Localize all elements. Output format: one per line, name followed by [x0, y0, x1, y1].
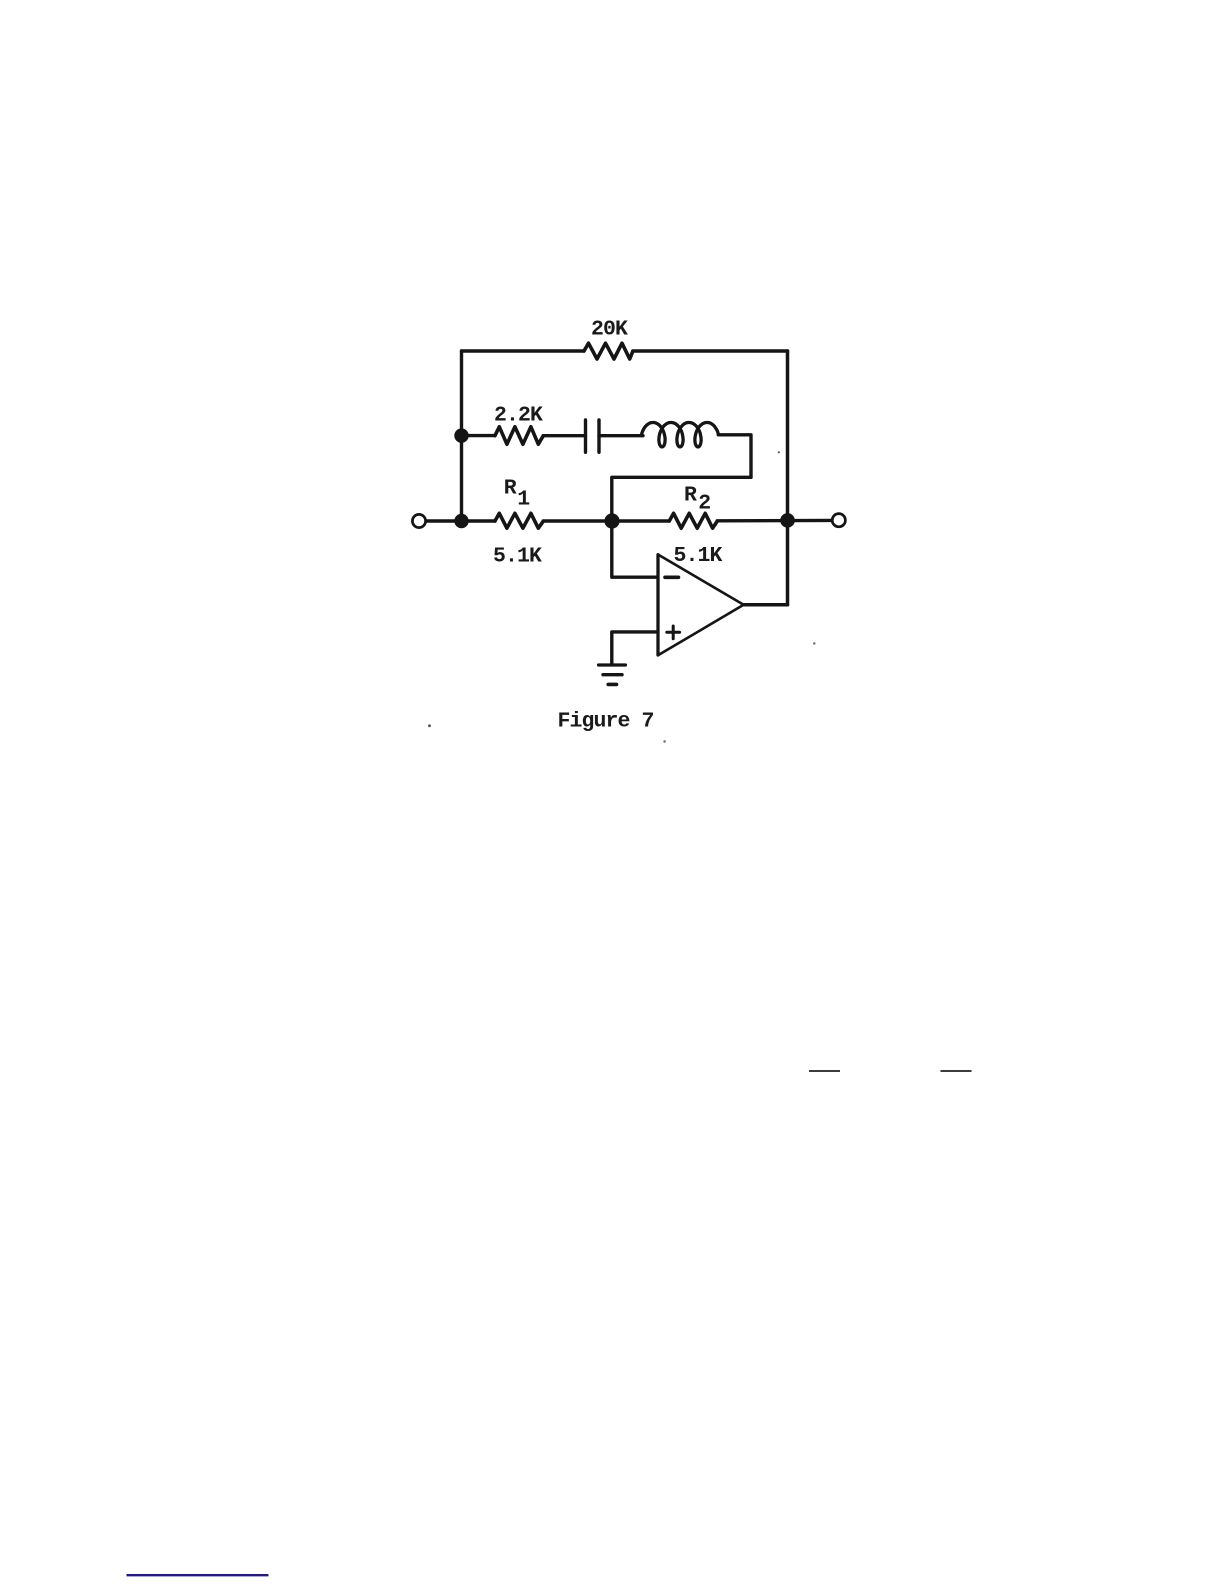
op-amp U1 triangle — [658, 555, 744, 656]
ground bar 2 — [603, 673, 622, 676]
wire non-inverting input — [612, 632, 657, 665]
wire rail right — [717, 519, 831, 523]
node output right — [780, 513, 795, 528]
stray speck — [428, 724, 431, 727]
ground bar 3 — [608, 683, 616, 687]
resistor R1 zigzag — [495, 513, 543, 528]
svg-text:Figure 7: Figure 7 — [558, 709, 654, 733]
svg-text:R: R — [504, 476, 517, 500]
stray speck 2 — [813, 642, 816, 645]
svg-text:5.1K: 5.1K — [493, 545, 542, 569]
wire 2.2K row left stub — [462, 434, 496, 437]
terminal input open circle — [412, 514, 425, 527]
svg-text:5.1K: 5.1K — [674, 544, 723, 568]
svg-text:R: R — [684, 484, 697, 508]
resistor R2 zigzag — [669, 513, 717, 528]
blank rule 1 — [809, 1070, 840, 1072]
wire rail middle — [543, 519, 669, 522]
wire capacitor to inductor — [599, 434, 643, 437]
node input left — [454, 514, 468, 528]
svg-text:2: 2 — [698, 492, 710, 516]
wire left vertical — [460, 351, 463, 521]
wire inverting input — [612, 521, 657, 577]
capacitor C1 right plate — [597, 420, 600, 452]
svg-text:2.2K: 2.2K — [494, 404, 543, 428]
op-amp plus sign — [667, 631, 680, 634]
stray speck 4 — [778, 451, 780, 453]
blank rule 2 — [941, 1070, 972, 1072]
stray speck 3 — [663, 740, 666, 743]
wire return run to node — [612, 477, 751, 521]
svg-text:20K: 20K — [591, 318, 628, 342]
wire resistor to capacitor — [543, 434, 585, 437]
terminal output open circle — [832, 514, 845, 527]
op-amp minus sign — [665, 575, 679, 579]
wire top rail right segment — [633, 349, 788, 352]
inductor L1 coil — [642, 423, 719, 447]
node at 2.2K tap — [454, 428, 468, 442]
wire op-amp output — [744, 603, 788, 607]
wire right vertical — [786, 351, 790, 605]
capacitor C1 left plate — [584, 420, 587, 452]
node summing junction — [604, 513, 619, 528]
resistor 2.2K zigzag — [495, 427, 543, 444]
op-amp left edge emphasis — [656, 555, 659, 655]
ground bar 1 — [599, 663, 626, 666]
svg-text:1: 1 — [517, 488, 529, 512]
wire inductor to right step — [718, 435, 751, 478]
bottom blue rule — [127, 1574, 269, 1576]
wire top rail left segment — [462, 349, 585, 352]
wire input rail left — [427, 519, 496, 522]
resistor 20K zigzag — [584, 343, 633, 359]
